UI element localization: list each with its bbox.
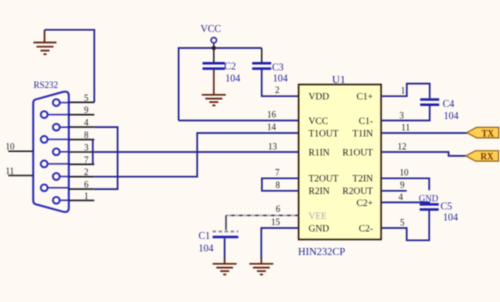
svg-text:7: 7 (84, 155, 89, 165)
ground GND2 under C2 (202, 95, 226, 106)
svg-text:C1+: C1+ (357, 93, 373, 103)
svg-text:14: 14 (267, 122, 277, 132)
wire: DB9 pin2 to U1 T1OUT pin14 (94, 133, 298, 177)
U1 right column pin names (342, 93, 373, 235)
svg-text:7: 7 (275, 168, 280, 178)
wire: VCC rail to U1 VCC pin16 (179, 120, 299, 122)
ground GND4 under pin15 (249, 258, 273, 275)
svg-text:C2: C2 (224, 61, 236, 72)
svg-text:11: 11 (6, 166, 15, 176)
wire: U1 R1OUT pin12 to RX port (381, 152, 466, 156)
wire: C5 to U1 C2- pin5 (381, 211, 429, 241)
ground GND1 top-left (34, 30, 57, 54)
svg-text:2: 2 (84, 167, 89, 177)
svg-text:4: 4 (84, 118, 89, 128)
svg-text:RS232: RS232 (34, 80, 59, 90)
svg-text:11: 11 (401, 123, 410, 133)
svg-text:GND: GND (309, 224, 330, 234)
svg-text:C5: C5 (441, 201, 453, 212)
svg-text:T2OUT: T2OUT (309, 175, 339, 185)
svg-text:T1IN: T1IN (352, 129, 373, 139)
U1 left pin numbers (267, 85, 281, 227)
svg-text:C1: C1 (199, 231, 211, 242)
svg-text:9: 9 (84, 105, 89, 115)
capacitor C5 (420, 203, 439, 206)
wire: C4 to U1 pin3 C1- (381, 106, 430, 121)
port RX (466, 151, 499, 161)
ground GND3 under C1 (213, 258, 237, 275)
svg-text:VCC: VCC (201, 24, 222, 35)
J1 pin 11 stub (8, 175, 33, 177)
svg-text:10: 10 (6, 142, 16, 152)
svg-text:C2-: C2- (359, 224, 373, 234)
svg-text:104: 104 (273, 74, 288, 85)
svg-text:104: 104 (444, 111, 459, 122)
J1 pin tails (circle to body edge) (47, 103, 68, 201)
U1 R2OUT pin9 stub (381, 190, 407, 192)
svg-text:T1OUT: T1OUT (309, 129, 339, 139)
svg-text:VCC: VCC (309, 117, 329, 127)
svg-text:2: 2 (275, 85, 280, 95)
wire: U1 T2IN pin10 to GND net label (381, 178, 429, 190)
port TX (467, 127, 499, 137)
wire: VCC rail (179, 48, 262, 121)
svg-text:5: 5 (400, 218, 405, 228)
svg-text:104: 104 (225, 73, 240, 84)
wire: U1 pin1 C1+ jog to C4 (381, 84, 430, 99)
svg-text:C2+: C2+ (357, 199, 373, 209)
svg-text:10: 10 (400, 168, 410, 178)
wire: DB9 pin3 to U1 R1IN pin13 (94, 151, 298, 153)
svg-text:16: 16 (267, 110, 277, 120)
wire: U1 GND pin15 to ground (261, 228, 298, 259)
svg-text:6: 6 (276, 204, 281, 214)
capacitor C2 (213, 48, 215, 62)
J1 pin stubs (black) (69, 102, 95, 200)
wire: U1 VEE pin6 to C1 (selected/dashed) (226, 214, 299, 216)
svg-text:3: 3 (399, 111, 404, 121)
wire: C2 to ground (213, 70, 215, 95)
U1 left column pin names (309, 93, 339, 235)
svg-text:R2IN: R2IN (309, 187, 330, 197)
wire: U1 T2OUT pin7 / R2IN pin8 loopback bracket (262, 178, 299, 191)
svg-text:4: 4 (399, 192, 404, 202)
svg-text:RX: RX (481, 152, 494, 162)
svg-text:U1: U1 (332, 74, 345, 86)
svg-text:R1OUT: R1OUT (342, 148, 373, 158)
IC U1 HIN232CP body (299, 85, 382, 240)
U1 right pin numbers (398, 86, 410, 228)
svg-text:5: 5 (84, 93, 89, 103)
svg-text:VDD: VDD (309, 93, 330, 103)
wire: DB9 pin4 to pin6 loopback (94, 127, 117, 189)
svg-text:C3: C3 (272, 62, 284, 73)
wire: DB9 pin8 to pin7 loopback (92, 140, 94, 165)
svg-text:TX: TX (482, 128, 495, 138)
svg-text:C1-: C1- (359, 117, 373, 127)
svg-text:104: 104 (199, 243, 214, 254)
svg-text:HIN232CP: HIN232CP (298, 247, 345, 258)
svg-text:13: 13 (268, 142, 278, 152)
svg-text:9: 9 (400, 180, 405, 190)
wire: C1 to ground (224, 238, 226, 258)
svg-text:8: 8 (84, 130, 89, 140)
capacitor C1 (213, 231, 239, 233)
svg-text:C4: C4 (443, 99, 455, 110)
svg-text:3: 3 (84, 143, 89, 153)
svg-text:T2IN: T2IN (352, 175, 373, 185)
J1 pin circles left column (pins 9,8,7,6) (41, 111, 48, 191)
svg-text:15: 15 (271, 217, 281, 227)
J1 pin circles right column (pins 5,4,3,2,1) (53, 99, 60, 204)
svg-text:R2OUT: R2OUT (342, 187, 373, 197)
J1 pin 10 stub (8, 150, 33, 152)
svg-text:6: 6 (84, 180, 89, 190)
svg-text:8: 8 (276, 180, 281, 190)
connector J1 RS232 DB9 body (33, 92, 69, 212)
svg-text:12: 12 (398, 142, 407, 152)
wire: DB9 pin5 to GND1 (45, 30, 95, 103)
svg-text:1: 1 (401, 86, 406, 96)
wire: C3 to U1 VDD pin2 (262, 70, 299, 97)
svg-text:1: 1 (84, 191, 89, 201)
wire: U1 T1IN pin11 to TX port (381, 132, 467, 134)
capacitor C3 (261, 48, 263, 62)
svg-text:VEE: VEE (309, 212, 328, 222)
capacitor C4 (420, 98, 439, 101)
J1 pin numbers 5,9,4,8,3,7,2,6,1 (84, 93, 89, 201)
junction node on VCC rail (212, 46, 216, 50)
svg-text:104: 104 (443, 213, 458, 224)
wire: U1 C2+ pin4 to C5 (381, 202, 429, 203)
svg-text:R1IN: R1IN (309, 148, 330, 158)
